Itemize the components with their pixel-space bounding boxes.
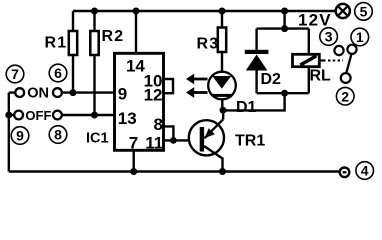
node R2 OFF row	[91, 112, 98, 119]
node pin7 rail	[130, 168, 137, 175]
bracket pins 10-12	[164, 79, 173, 93]
node R2 top	[91, 8, 98, 15]
wire loop bottom to collector node	[222, 93, 284, 110]
resistor R3	[218, 28, 226, 53]
svg-text:11: 11	[145, 133, 163, 152]
circled terminal number 1	[351, 28, 369, 46]
svg-text:OFF: OFF	[25, 108, 51, 123]
wire pin8 stub	[164, 126, 173, 140]
wire R3 to LED	[221, 52, 223, 72]
node pin14 top	[133, 8, 140, 15]
wire TR1 emitter vertical	[221, 158, 223, 172]
LED light arrow lower	[186, 87, 208, 98]
wire IC pin9 to ON row	[62, 91, 114, 93]
svg-text:7: 7	[11, 66, 19, 82]
wire R1 bottom lead	[72, 55, 74, 93]
switch arm	[346, 54, 351, 74]
svg-text:R1: R1	[45, 34, 68, 51]
dashed link relay to switch	[319, 59, 325, 61]
wire bottom rail	[9, 170, 340, 172]
wire ON left elbow	[9, 91, 16, 93]
terminal OFF left	[14, 111, 23, 120]
circled terminal number 5	[355, 3, 373, 21]
wire rail drop to coil loop	[283, 11, 285, 29]
terminal ON right	[53, 88, 62, 97]
wire relay top lead	[308, 29, 310, 55]
diode D2	[245, 50, 269, 71]
wire IC pin 14 lead	[135, 11, 137, 52]
wire coil loop bottom	[257, 92, 309, 94]
wire R2 top lead	[93, 11, 95, 31]
terminal OFF right	[53, 111, 62, 120]
svg-text:R3: R3	[197, 35, 220, 52]
wire IC pin13 to OFF row	[62, 114, 114, 116]
svg-text:3: 3	[325, 29, 333, 45]
wire top rail	[73, 10, 336, 12]
node pin8-11 join	[170, 137, 177, 144]
wire left rail	[8, 93, 10, 172]
svg-text:7: 7	[129, 133, 138, 152]
LED D1	[208, 72, 236, 100]
svg-text:9: 9	[16, 128, 24, 144]
node LED cathode / collector	[220, 107, 227, 114]
svg-text:5: 5	[360, 4, 368, 20]
circled terminal number 8	[49, 126, 67, 144]
svg-text:4: 4	[361, 163, 369, 179]
relay coil RL	[293, 54, 320, 66]
svg-text:13: 13	[118, 109, 137, 128]
node emitter rail	[219, 168, 226, 175]
svg-text:8: 8	[54, 127, 62, 143]
wire LED cathode lead	[221, 97, 223, 110]
wire TR1 collector	[222, 110, 224, 119]
transistor TR1	[189, 119, 224, 158]
IC box IC1	[115, 53, 164, 150]
circled terminal number 3	[320, 28, 338, 46]
terminal ON left	[15, 88, 24, 97]
switch contact 1	[347, 45, 356, 54]
svg-text:D1: D1	[236, 99, 257, 116]
circled terminal number 2	[336, 87, 354, 105]
wire coil loop top	[257, 27, 309, 29]
wire R2 bottom lead	[93, 55, 95, 115]
svg-text:2: 2	[341, 88, 349, 104]
wire IC pin7 lead	[132, 152, 134, 172]
wire D2 bottom lead	[255, 71, 257, 94]
node left rail OFF	[5, 112, 12, 119]
svg-text:12: 12	[144, 86, 163, 105]
svg-text:ON: ON	[27, 86, 49, 102]
wire R3 top lead	[221, 11, 223, 28]
switch pivot contact 2	[341, 73, 351, 83]
node loop top	[281, 25, 288, 32]
supply terminal (+12V)	[336, 4, 350, 18]
terminal 4 (bottom rail end)	[340, 168, 350, 178]
wire D2 top lead	[255, 29, 257, 50]
svg-text:R2: R2	[102, 28, 125, 45]
node R3 top	[219, 8, 226, 15]
resistor R2	[90, 31, 98, 55]
circled terminal number 6	[49, 64, 67, 82]
resistor R1	[69, 31, 77, 55]
svg-text:IC1: IC1	[86, 130, 109, 146]
svg-text:RL: RL	[310, 68, 332, 85]
svg-text:12V: 12V	[298, 11, 332, 30]
wire OFF left link	[9, 114, 14, 116]
node R1 ON row	[70, 89, 77, 96]
wire R1 top lead	[72, 11, 74, 31]
svg-text:D2: D2	[261, 71, 282, 88]
circled terminal number 4	[356, 162, 374, 180]
node loop bottom	[281, 90, 288, 97]
node rail drop	[281, 8, 288, 15]
circled terminal number 7	[6, 65, 24, 83]
svg-text:9: 9	[118, 85, 127, 104]
LED light arrow upper	[186, 74, 208, 85]
svg-text:8: 8	[154, 115, 163, 134]
svg-text:TR1: TR1	[235, 133, 265, 150]
svg-text:6: 6	[54, 65, 62, 81]
wire relay bottom lead	[308, 67, 310, 94]
switch contact 3	[334, 46, 343, 55]
wire pin11 to base	[164, 139, 200, 141]
svg-text:14: 14	[126, 56, 145, 75]
circled terminal number 9	[11, 127, 29, 145]
svg-text:1: 1	[356, 29, 364, 45]
